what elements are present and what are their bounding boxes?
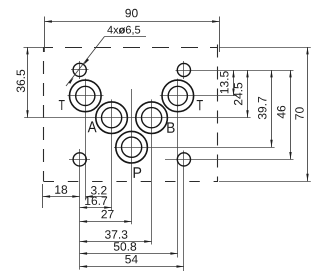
centerline cross top-left bolt horizontal — [71, 69, 89, 71]
dim 50.8 text — [114, 242, 136, 251]
port P inner — [122, 137, 142, 157]
dim 36.5 text (rotated) — [17, 70, 26, 92]
dim 70 text (rotated) — [295, 107, 304, 119]
port P outer — [116, 131, 148, 163]
dim 36.5 extension top — [24, 47, 46, 49]
valve body outline bottom edge — [44, 181, 219, 183]
centerline top bolt row (extension to dim 46) — [176, 70, 294, 72]
label 4x dia 6.5 — [107, 26, 140, 35]
extension bottom edge to dim 70 — [219, 181, 311, 183]
dim 27 text — [101, 210, 113, 218]
centerline cross top-right bolt vertical — [183, 61, 185, 79]
centerline bottom bolt row (extension to dim 46) — [165, 159, 294, 161]
extension vertical port T right column (to dim 50.8) — [177, 79, 179, 258]
bolt hole bottom-left — [73, 153, 86, 166]
label port P — [134, 167, 142, 178]
dim 54 line — [80, 266, 184, 268]
dim 18 text — [55, 185, 67, 194]
port T right outer — [162, 80, 194, 112]
dim 39.7 line — [271, 70, 273, 147]
extension top edge to dim 70 — [219, 47, 311, 49]
valve body outline left edge — [43, 47, 45, 181]
valve body outline (dashed square 90x70) top edge — [44, 47, 219, 49]
bolt hole top-right — [177, 63, 190, 76]
valve body outline right edge — [217, 43, 219, 181]
dim 36.5 line — [27, 47, 29, 118]
extension vertical port B column (to dim 37.3) — [151, 99, 153, 244]
dim 46 line — [290, 70, 292, 159]
dim 24.5 text (rotated) — [234, 83, 243, 105]
port A inner — [102, 108, 122, 128]
dim 54 text — [125, 255, 138, 263]
port B outer — [136, 102, 168, 134]
port T right inner — [168, 86, 187, 105]
dim 18 extension left (below square left edge) — [42, 184, 44, 208]
dim 90 extension left — [44, 17, 46, 53]
dim 90 extension right — [219, 17, 221, 53]
bolt hole bottom-right — [177, 153, 190, 166]
dim 90 line — [45, 21, 220, 23]
dim 90 text — [125, 9, 137, 18]
dim 37.3 text — [105, 230, 127, 239]
dim 70 line — [307, 47, 309, 181]
label port T right — [197, 100, 203, 110]
dim 27 line — [80, 221, 132, 223]
centerline P row (extension to dim 39.7) — [114, 147, 275, 149]
extension vertical port A column (to dim 16.7) — [111, 99, 113, 210]
leader arrow upper (at bolt circle edge) — [84, 58, 89, 64]
dim 39.7 text (rotated) — [258, 97, 267, 119]
dim 16.7 line — [80, 207, 112, 209]
extension vertical port P column (to dim 27) — [131, 89, 133, 224]
dim 24.5 line — [247, 70, 249, 118]
label port T left — [59, 100, 65, 110]
dim 16.7 text — [85, 197, 107, 206]
dim 18 line — [43, 196, 80, 198]
extension vertical bolt-left column (to dims 18..54) — [79, 149, 81, 270]
bolt hole top-left — [73, 63, 86, 76]
port A outer — [96, 102, 128, 134]
label port A — [88, 121, 97, 132]
centerline cross top-left bolt vertical — [79, 61, 81, 79]
leader arrow lower (at bolt circle edge) — [68, 78, 73, 84]
dim 13.5 text (rotated) — [220, 71, 229, 93]
dim 3.2 text — [91, 186, 107, 195]
dim 3.2 line with underline — [85, 196, 106, 198]
dim 37.3 line — [80, 241, 152, 243]
extension vertical bolt-right column (to dim 54) — [183, 151, 185, 272]
port T left outer — [70, 80, 102, 112]
port B inner — [142, 108, 162, 128]
dim 50.8 line — [80, 253, 178, 255]
leader 4x dia 6.5 diagonal line — [66, 37, 105, 87]
leader 4x dia 6.5 underline — [105, 36, 147, 38]
centerline A/B row (extension 36.5 to dim 24.5) — [24, 117, 250, 119]
label port B — [167, 122, 174, 132]
centerline cross bottom-left bolt horizontal — [69, 159, 90, 161]
port T left inner — [76, 86, 95, 105]
centerline T row right segment (extension to dim 13.5) — [160, 95, 237, 97]
dim 46 text (rotated) — [277, 106, 286, 119]
extension vertical port T left column (to dim 3.2) — [85, 79, 87, 201]
dim 13.5 line — [233, 70, 235, 96]
centerline T row left segment — [68, 95, 104, 97]
